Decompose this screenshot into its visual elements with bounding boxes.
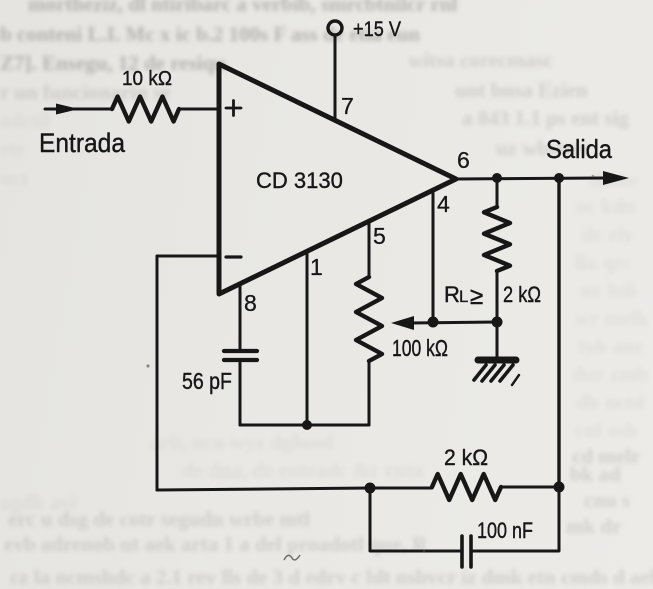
op-amp U1 CD 3130 bbox=[219, 64, 456, 294]
svg-text:L: L bbox=[459, 287, 468, 306]
node bottom left junction bbox=[365, 483, 376, 494]
label 100 nF bbox=[477, 518, 533, 543]
svg-text:R: R bbox=[444, 282, 460, 307]
paper speck C bbox=[423, 550, 426, 553]
ground bbox=[474, 360, 519, 385]
resistor R3 2k zigzag bbox=[432, 474, 501, 500]
bleed-through background text bbox=[0, 0, 653, 1]
op-amp label CD 3130 bbox=[256, 168, 343, 193]
svg-text:7: 7 bbox=[341, 93, 354, 119]
node feedback bottom junction bbox=[554, 482, 565, 493]
label 2 kOhm R3 bbox=[444, 445, 488, 470]
wire pin 4 down bbox=[432, 190, 435, 322]
svg-text:2 kΩ: 2 kΩ bbox=[503, 282, 541, 307]
wire R1 to + input bbox=[179, 108, 219, 111]
label 56 pF bbox=[182, 368, 232, 394]
supply terminal +15V circle bbox=[328, 21, 342, 35]
label +15V bbox=[353, 18, 401, 41]
stray pen squiggle bbox=[284, 555, 300, 560]
svg-text:8: 8 bbox=[244, 290, 257, 316]
svg-text:≥: ≥ bbox=[470, 283, 483, 310]
svg-text:5: 5 bbox=[373, 223, 386, 249]
pin 1 label bbox=[310, 254, 323, 280]
resistor R2 100k pot zigzag bbox=[356, 277, 382, 361]
svg-text:100 nF: 100 nF bbox=[477, 518, 533, 543]
label Salida bbox=[546, 134, 612, 164]
svg-text:2 kΩ: 2 kΩ bbox=[444, 445, 488, 470]
svg-text:+15 V: +15 V bbox=[353, 18, 401, 41]
wire bottom feedback horizontal bbox=[157, 488, 370, 490]
wire C1 to bottom rail bbox=[239, 362, 242, 425]
pin 5 label bbox=[373, 223, 386, 249]
wire 100nF branch right bbox=[473, 487, 559, 551]
capacitor C1 56pF plates bbox=[224, 351, 257, 360]
capacitor C2 100nF plates bbox=[462, 536, 471, 567]
svg-text:6: 6 bbox=[457, 147, 470, 173]
paper speck B bbox=[592, 175, 595, 178]
wire - input horizontal bbox=[157, 255, 219, 258]
svg-text:4: 4 bbox=[437, 191, 450, 217]
label 100 kOhm bbox=[392, 335, 448, 361]
svg-text:56 pF: 56 pF bbox=[182, 368, 232, 394]
input arrow bbox=[56, 104, 79, 115]
svg-text:1: 1 bbox=[310, 254, 323, 280]
label RL >= bbox=[444, 282, 483, 310]
wire pot bottom bbox=[368, 361, 371, 425]
wire pin7 to supply bbox=[334, 35, 337, 120]
wire RL top bbox=[496, 178, 499, 207]
node RL bottom junction bbox=[492, 317, 503, 328]
svg-text:10 kΩ: 10 kΩ bbox=[122, 68, 172, 90]
svg-text:CD 3130: CD 3130 bbox=[256, 168, 343, 193]
wire left vertical feedback bbox=[156, 256, 159, 490]
wire input to R1 bbox=[45, 108, 112, 111]
svg-text:Entrada: Entrada bbox=[39, 128, 126, 158]
svg-text:100 kΩ: 100 kΩ bbox=[392, 335, 448, 361]
output arrow bbox=[603, 171, 629, 185]
resistor R1 10k zigzag bbox=[112, 97, 179, 122]
op-amp - input marking bbox=[226, 255, 241, 258]
node pin1 junction bbox=[302, 420, 312, 430]
resistor RL 2k zigzag bbox=[484, 207, 510, 271]
wire R3 left bbox=[370, 487, 432, 490]
label 10 kOhm bbox=[122, 68, 172, 90]
wire pin 5 down bbox=[368, 222, 371, 277]
wire RL bottom to ground bbox=[496, 271, 499, 360]
node pin4 wiper junction bbox=[428, 317, 439, 328]
node output junction A bbox=[492, 173, 502, 183]
pin 6 label bbox=[457, 147, 470, 173]
pin 8 label bbox=[244, 290, 257, 316]
wire pin 8 down bbox=[239, 285, 242, 349]
pin 4 label bbox=[437, 191, 450, 217]
node output junction B bbox=[554, 173, 564, 183]
svg-text:Salida: Salida bbox=[546, 134, 612, 164]
wire pin 1 down bbox=[306, 252, 309, 425]
wire bottom rail under C1 bbox=[240, 424, 369, 427]
label Entrada bbox=[39, 128, 126, 158]
pot wiper arrow bbox=[391, 316, 414, 330]
wire 100nF branch left bbox=[370, 488, 460, 551]
wire R3 right to junction bbox=[501, 486, 559, 489]
wire output bbox=[456, 178, 604, 179]
paper speck A bbox=[146, 364, 149, 367]
wire right vertical feedback bbox=[557, 178, 560, 487]
label 2 kOhm RL bbox=[503, 282, 541, 307]
wire wiper to ground node bbox=[411, 322, 497, 323]
op-amp + input marking bbox=[226, 101, 241, 116]
pin 7 label bbox=[341, 93, 354, 119]
